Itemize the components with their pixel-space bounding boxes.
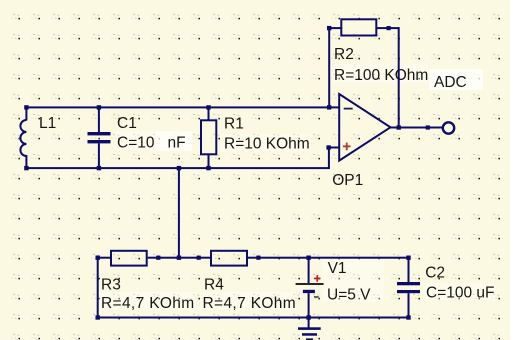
white right margin bbox=[510, 0, 524, 340]
svg-text:R3: R3 bbox=[101, 277, 121, 294]
capacitor C1 bbox=[88, 106, 111, 169]
node: C1 bottom junction bbox=[97, 166, 101, 170]
V1 plus marker bbox=[314, 275, 321, 282]
node: non-inverting corner bbox=[326, 145, 330, 149]
node: terminal pin bbox=[426, 125, 430, 129]
voltage source V1 bbox=[296, 257, 324, 319]
svg-text:R=10 KOhm: R=10 KOhm bbox=[224, 135, 310, 152]
node: V1 top junction bbox=[306, 256, 310, 260]
svg-text:R1: R1 bbox=[224, 115, 244, 132]
resistor R1 bbox=[201, 106, 216, 169]
resistor R2 bbox=[328, 19, 399, 35]
svg-text:OP1: OP1 bbox=[332, 172, 363, 189]
capacitor C2 bbox=[397, 257, 420, 319]
svg-text:C=100 uF: C=100 uF bbox=[426, 284, 495, 301]
highlight behind R=4,7 KOhm right bbox=[200, 292, 295, 310]
highlight behind R=4,7 KOhm left bbox=[98, 292, 197, 310]
svg-text:nF: nF bbox=[168, 135, 186, 152]
highlight behind R=10 KOhm bbox=[221, 134, 311, 152]
node: loop bottom-left corner bbox=[96, 315, 100, 319]
node: output junction bbox=[397, 125, 401, 129]
svg-text:ADC: ADC bbox=[434, 74, 467, 91]
terminal ADC circle bbox=[443, 122, 454, 133]
resistor R3 bbox=[97, 251, 211, 266]
node: L1 top corner bbox=[24, 105, 28, 109]
wire: output horizontal bbox=[389, 127, 443, 129]
svg-text:C2: C2 bbox=[425, 264, 445, 281]
svg-text:L1: L1 bbox=[39, 115, 56, 132]
svg-text:C=10: C=10 bbox=[117, 135, 155, 152]
highlight behind nF bbox=[156, 132, 192, 152]
node: R2 left pin bbox=[327, 26, 331, 30]
wire: vertical from tank bottom to R3/R4 row bbox=[178, 167, 180, 259]
op-amp minus marker bbox=[344, 108, 353, 110]
op-amp plus marker bbox=[343, 143, 351, 151]
node: R1 bottom junction bbox=[206, 166, 210, 170]
highlight behind R=100 KOhm bbox=[332, 64, 428, 83]
inductor L1 bbox=[20, 106, 27, 169]
node: C1 top junction bbox=[97, 105, 101, 109]
svg-text:R4: R4 bbox=[204, 277, 224, 294]
wire: loop left vertical bbox=[97, 257, 99, 319]
svg-text:V1: V1 bbox=[328, 260, 347, 277]
node: L1 bottom corner bbox=[24, 166, 28, 170]
node: V1 bottom junction bbox=[306, 315, 310, 319]
wire: tank top horizontal bbox=[25, 106, 339, 108]
node: C2 bottom corner bbox=[406, 315, 410, 319]
highlight behind V1 U=5 V bbox=[322, 258, 384, 302]
node: C2 top corner bbox=[406, 256, 410, 260]
V1 minus marker bbox=[314, 296, 319, 298]
node: tank bottom / vertical junction bbox=[177, 166, 181, 170]
wire: non-inverting input vertical bbox=[328, 147, 330, 169]
node: R3/R4 mid junction bbox=[177, 256, 181, 260]
wire: tank bottom horizontal bbox=[25, 167, 330, 169]
wire: feedback right vertical bbox=[398, 27, 400, 128]
node: R3 right pin bbox=[156, 256, 160, 260]
svg-text:R2: R2 bbox=[334, 46, 354, 63]
highlight behind C=100 uF bbox=[423, 283, 496, 300]
svg-text:R=4,7 KOhm: R=4,7 KOhm bbox=[101, 295, 195, 312]
svg-text:R=4,7 KOhm: R=4,7 KOhm bbox=[203, 295, 297, 312]
wire: feedback left vertical bbox=[328, 27, 330, 108]
node: R4 right pin bbox=[256, 256, 260, 260]
wire: loop bottom horizontal bbox=[97, 317, 410, 319]
node: R2 right pin bbox=[387, 26, 391, 30]
node: R4 left pin bbox=[197, 256, 201, 260]
ground bbox=[298, 318, 321, 340]
svg-text:C1: C1 bbox=[117, 115, 137, 132]
wire: non-inverting input horizontal bbox=[328, 147, 340, 149]
resistor R4 bbox=[211, 251, 410, 266]
svg-text:R=100 KOhm: R=100 KOhm bbox=[334, 67, 428, 84]
node: R3 left pin corner bbox=[96, 256, 100, 260]
svg-text:U=5 V: U=5 V bbox=[327, 286, 371, 303]
node: inverting input junction bbox=[327, 105, 331, 109]
node: R1 top junction bbox=[206, 105, 210, 109]
op-amp OP1 bbox=[339, 94, 390, 161]
highlight behind ADC bbox=[429, 69, 483, 90]
highlight behind C=10 value bbox=[114, 131, 159, 150]
